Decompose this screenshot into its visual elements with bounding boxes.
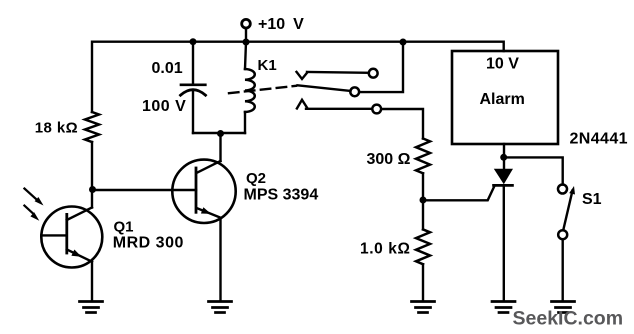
- wire SCR cathode to ground: [503, 185, 505, 301]
- box alarm 10V: [452, 51, 558, 144]
- resistor R1 18 kOhm: [85, 112, 99, 142]
- transistor Q1 MRD 300: [41, 207, 102, 268]
- node bus-coil junction: [243, 39, 250, 46]
- wire Q1 emitter to ground: [91, 262, 93, 301]
- node bus-capacitor junction: [190, 38, 197, 45]
- wire coil to bottom rail: [244, 112, 246, 133]
- svg-text:18 kΩ: 18 kΩ: [35, 120, 78, 137]
- svg-text:100 V: 100 V: [142, 98, 186, 115]
- wire anode junction to S1: [504, 157, 563, 184]
- wire Q2 base to node A: [93, 189, 197, 191]
- wire 300 ohm to gate node: [422, 173, 424, 200]
- wire gate node to 1.0k: [422, 200, 424, 229]
- relay coil K1: [245, 69, 255, 112]
- switch S1: [558, 185, 575, 240]
- node A junction 18k / Q1 collector / Q2 base: [89, 186, 96, 193]
- svg-text:0.01: 0.01: [152, 60, 183, 77]
- svg-text:10 V: 10 V: [486, 56, 519, 73]
- wire capacitor-coil bottom rail: [193, 132, 245, 134]
- svg-text:Alarm: Alarm: [480, 91, 525, 108]
- relay armature common contact: [298, 85, 360, 96]
- ground SCR cathode: [492, 302, 515, 313]
- wire armature to bus: [359, 42, 403, 92]
- transistor Q2 MPS 3394: [172, 160, 235, 223]
- wire Q1 collector to node A: [91, 190, 93, 208]
- dashed mechanical link coil to armature: [229, 86, 296, 93]
- ground 1.0k: [412, 302, 435, 313]
- terminal +10V: [242, 19, 251, 28]
- light arrow 1: [24, 189, 43, 206]
- resistor R3 1.0 kOhm: [416, 229, 430, 264]
- svg-text:MPS 3394: MPS 3394: [244, 186, 319, 203]
- wire S1 to ground: [562, 239, 564, 301]
- wire Q2 emitter to ground: [219, 218, 221, 301]
- node bus-armature junction: [400, 39, 407, 46]
- ground Q2 emitter: [209, 302, 232, 313]
- svg-text:2N4441: 2N4441: [570, 130, 628, 147]
- ground S1: [552, 302, 575, 313]
- wire 1.0k to ground: [422, 264, 424, 301]
- svg-text:+10 V: +10 V: [258, 16, 304, 33]
- svg-text:1.0 kΩ: 1.0 kΩ: [360, 241, 411, 258]
- wire capacitor to bottom rail: [192, 90, 194, 133]
- light arrow 2: [24, 206, 39, 221]
- capacitor C1 0.01 100V: [181, 85, 206, 95]
- wire 18k to node A: [91, 142, 93, 190]
- node Q2 collector junction: [217, 130, 224, 137]
- wire lower contact to 300 ohm: [381, 109, 423, 139]
- node SCR anode junction: [500, 154, 507, 161]
- resistor R2 300 Ohm: [416, 139, 430, 174]
- wire box bottom to SCR anode: [503, 144, 505, 169]
- svg-text:S1: S1: [582, 191, 602, 208]
- ground Q1 emitter: [80, 302, 103, 313]
- wire bus to coil: [245, 42, 246, 69]
- wire +10V top bus: [92, 42, 504, 112]
- wire terminal to bus: [245, 28, 247, 42]
- svg-text:SeekIC.com: SeekIC.com: [513, 307, 624, 329]
- svg-text:Q2: Q2: [246, 170, 266, 187]
- wire SCR gate to gate node: [423, 186, 495, 201]
- node gate junction: [420, 197, 427, 204]
- relay contact upper fixed: [297, 69, 378, 79]
- svg-text:300 Ω: 300 Ω: [367, 151, 411, 168]
- wire Q2 collector to bottom rail: [219, 133, 221, 161]
- wire bus to capacitor: [192, 42, 194, 85]
- svg-text:K1: K1: [258, 57, 277, 74]
- svg-text:Q1: Q1: [114, 219, 134, 236]
- relay contact lower fixed: [297, 100, 381, 114]
- SCR U1 2N4441: [494, 169, 513, 186]
- svg-text:MRD 300: MRD 300: [113, 234, 184, 251]
